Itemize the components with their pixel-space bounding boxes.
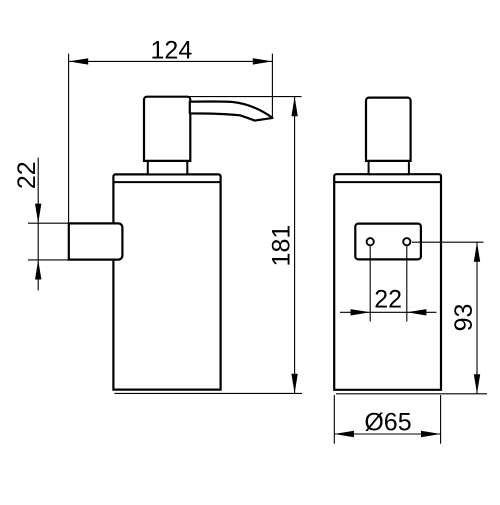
- extension line right of 124 (to spout tip): [271, 54, 273, 118]
- extension line left of diameter: [333, 395, 335, 444]
- arrow left toward right hole line: [407, 309, 427, 315]
- pump neck (front view): [369, 160, 409, 174]
- arrow up at 181 top: [291, 97, 297, 117]
- dimension line 124: [69, 60, 273, 62]
- arrow right of diameter: [421, 431, 441, 437]
- right mounting hole: [403, 238, 410, 245]
- arrow down at 93 bottom: [474, 374, 480, 394]
- extension line from left hole: [369, 246, 371, 322]
- extension line top of 181: [188, 96, 302, 98]
- svg-text:Ø65: Ø65: [364, 409, 411, 437]
- dimension line 93: [476, 242, 478, 394]
- arrow left of diameter: [334, 431, 354, 437]
- svg-text:124: 124: [151, 36, 193, 64]
- extension line right of diameter: [440, 395, 442, 444]
- collar line (front view): [334, 181, 441, 183]
- extension line left of 124: [68, 54, 70, 223]
- dimension line left 22: [37, 158, 39, 291]
- spout (side view): [190, 102, 273, 121]
- arrow down at 181 bottom: [291, 374, 297, 394]
- dimension line 181: [294, 97, 296, 394]
- bottom rim / 93 bottom extension line: [336, 393, 487, 395]
- bottom rim / 181 bottom extension line: [115, 392, 303, 394]
- arrow right of 124: [253, 58, 273, 64]
- extension line top of left 22: [28, 222, 69, 224]
- extension line from right hole: [406, 246, 408, 322]
- dimension line 22 (holes): [340, 311, 437, 313]
- pump head (front view): [366, 98, 411, 161]
- pump head (side view): [144, 97, 190, 161]
- left mounting hole: [367, 238, 374, 245]
- extension line bottom of left 22: [28, 259, 69, 261]
- svg-text:181: 181: [267, 225, 295, 267]
- wall bracket (side view): [69, 223, 123, 259]
- pump neck (side view): [148, 160, 188, 175]
- dispenser body (front view): [334, 174, 441, 390]
- collar line (side view): [113, 181, 220, 183]
- arrow up to bracket bottom: [35, 260, 41, 280]
- svg-text:22: 22: [374, 285, 402, 313]
- arrow right toward left hole line: [351, 309, 371, 315]
- mounting plate (front view): [355, 224, 421, 260]
- svg-text:22: 22: [13, 161, 41, 189]
- arrow up at 93 top: [474, 242, 480, 262]
- svg-text:93: 93: [450, 304, 478, 332]
- dimension line diameter: [334, 433, 440, 435]
- arrow left of 124: [69, 58, 89, 64]
- dispenser body (side view): [113, 174, 220, 389]
- arrow down to bracket top: [35, 204, 41, 224]
- extension line from right hole to the right: [412, 241, 484, 243]
